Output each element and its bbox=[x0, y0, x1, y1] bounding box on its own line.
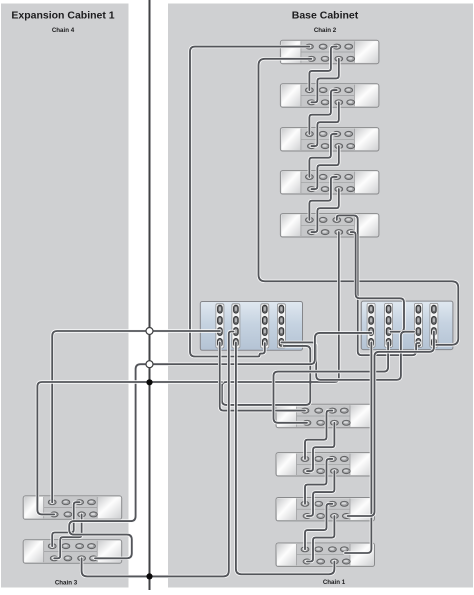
wire shelf5 p3b to ctrlL c4p3 bbox=[222, 232, 339, 405]
trunk cable from upper cabinet bbox=[147, 0, 152, 590]
wire zigzag alpha bbox=[309, 90, 336, 134]
wire shelf5 p3t to ctrlR c3p4 bbox=[337, 215, 420, 355]
disk shelf shelf 2 (chain 2) bbox=[280, 84, 379, 107]
wire trunk dot to shelfE p1b bbox=[37, 382, 222, 514]
wire ctrlR c4p4 to shelf1 p1b bbox=[259, 59, 459, 345]
wire zigzag alpha bbox=[309, 134, 336, 177]
svg-text:Chain 2: Chain 2 bbox=[314, 27, 337, 34]
controller left bbox=[200, 302, 302, 351]
wire zigzag alpha bbox=[309, 177, 336, 220]
wire ctrlL c3p4 to shelf1 p1t bbox=[190, 47, 309, 357]
wire ctrlL c2p3 to shelfF p3b bbox=[82, 332, 234, 577]
wire ctrlL c1p3 to shelfE p1t bbox=[52, 331, 220, 502]
wire zigzag alpha bbox=[305, 411, 332, 459]
controller right bbox=[361, 301, 453, 350]
wire zigzag alpha bbox=[52, 502, 79, 546]
wire zigzag beta bbox=[307, 516, 334, 562]
svg-text:Expansion Cabinet 1: Expansion Cabinet 1 bbox=[11, 10, 114, 22]
wire ctrlL c1p4 to shelfA p1t bbox=[220, 342, 305, 410]
svg-text:Chain 1: Chain 1 bbox=[323, 579, 346, 586]
disk shelf shelf E (chain 3) bbox=[23, 496, 122, 519]
wire shelf5 p4b to ctrlR c2p3 bbox=[351, 232, 404, 332]
disk shelf shelf A (chain 1) bbox=[276, 404, 375, 427]
svg-text:Chain 3: Chain 3 bbox=[55, 580, 78, 587]
wire shelfA p1b to ctrlR c2p4 bbox=[274, 342, 389, 422]
wire ctrlL c2p4 to shelfD p3b bbox=[236, 342, 335, 574]
junction dot upper bbox=[146, 379, 152, 385]
wire zigzag beta bbox=[311, 102, 338, 146]
junction dot lower bbox=[146, 573, 152, 579]
wire zigzag beta bbox=[54, 514, 81, 558]
wire zigzag alpha bbox=[309, 47, 336, 91]
wire ctrlR c4p3 to shelfC p4b bbox=[348, 332, 434, 517]
disk shelf shelf B (chain 1) bbox=[276, 453, 375, 476]
wire zigzag beta bbox=[307, 423, 334, 471]
disk shelf shelf D (chain 1) bbox=[276, 543, 375, 566]
base cabinet panel bbox=[168, 4, 473, 588]
svg-text:Chain 4: Chain 4 bbox=[52, 27, 75, 34]
disk shelf shelf 5 (chain 2) bbox=[280, 214, 379, 237]
expansion cabinet 1 panel bbox=[1, 4, 129, 588]
crossing marker (no connection) at chain3 wire bbox=[146, 328, 153, 335]
disk shelf shelf 3 (chain 2) bbox=[280, 128, 379, 151]
svg-text:Base Cabinet: Base Cabinet bbox=[292, 10, 359, 22]
wire zigzag beta bbox=[307, 471, 334, 516]
wire zigzag beta bbox=[311, 59, 338, 103]
disk shelf shelf C (chain 1) bbox=[276, 498, 375, 521]
disk shelf shelf 1 (chain 2) bbox=[280, 40, 379, 63]
wire zigzag alpha bbox=[305, 504, 332, 550]
disk shelf shelf F (chain 3) bbox=[23, 540, 122, 563]
wire ctrlR c1p3 to shelfF p4b bbox=[69, 333, 371, 558]
crossing marker (no connection) at chain wire bbox=[146, 361, 153, 368]
wire zigzag beta bbox=[311, 146, 338, 189]
wire zigzag alpha bbox=[305, 459, 332, 504]
wire ctrlR c1p4 to shelfD p4t bbox=[345, 342, 371, 553]
disk shelf shelf 4 (chain 2) bbox=[280, 171, 379, 194]
wire zigzag beta bbox=[311, 189, 338, 232]
wire ctrlL c4p4 to ctrlR c3p3 bbox=[281, 332, 414, 380]
